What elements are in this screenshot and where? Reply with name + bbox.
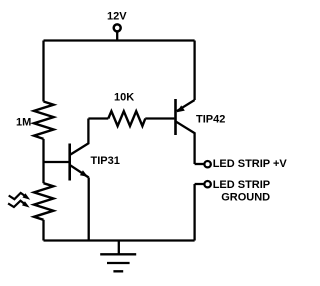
wire 10K left lead [88,117,108,119]
transistor Q2 TIP42 emitter diagonal [177,100,195,111]
svg-text:LED STRIP: LED STRIP [213,179,270,191]
terminal LED strip ground circle [204,181,210,187]
wire left rail middle [42,139,44,183]
transistor Q1 TIP31 collector [71,119,89,155]
transistor Q1 TIP31 emitter diagonal [70,165,88,177]
svg-text:1M: 1M [16,117,31,129]
wire left rail upper [42,41,44,102]
transistor Q2 TIP42 bar [174,99,177,135]
svg-text:10K: 10K [114,92,134,104]
ground [100,241,136,272]
wire ground stub [195,184,204,241]
wire TIP42 base [145,117,174,119]
terminal LED strip +V circle [204,161,210,167]
wire TIP31 emitter vertical [88,178,90,241]
wire bottom rail [44,239,195,241]
svg-text:TIP31: TIP31 [91,155,120,167]
transistor Q2 TIP42 emitter arrow [177,105,185,112]
wire right rail top [193,41,195,101]
svg-text:12V: 12V [107,11,127,23]
wire top rail [44,39,195,41]
wire 12V stem [116,32,118,41]
resistor R1 1M [34,102,54,139]
svg-text:GROUND: GROUND [221,192,270,204]
svg-text:TIP42: TIP42 [196,114,225,126]
transistor Q2 TIP42 collector [176,121,195,164]
transistor Q1 TIP31 emitter arrow [80,170,88,177]
transistor Q1 TIP31 bar [68,144,71,181]
light arrow 1 [9,193,31,200]
svg-text:LED STRIP +V: LED STRIP +V [213,158,288,170]
wire TIP31 base [44,161,69,163]
light arrow 2 [8,201,30,208]
terminal 12V circle [114,24,121,31]
resistor R2 10K [108,111,145,126]
wire left rail lower [42,220,44,241]
photoresistor LDR [34,183,53,220]
wire +V stub [195,163,204,165]
